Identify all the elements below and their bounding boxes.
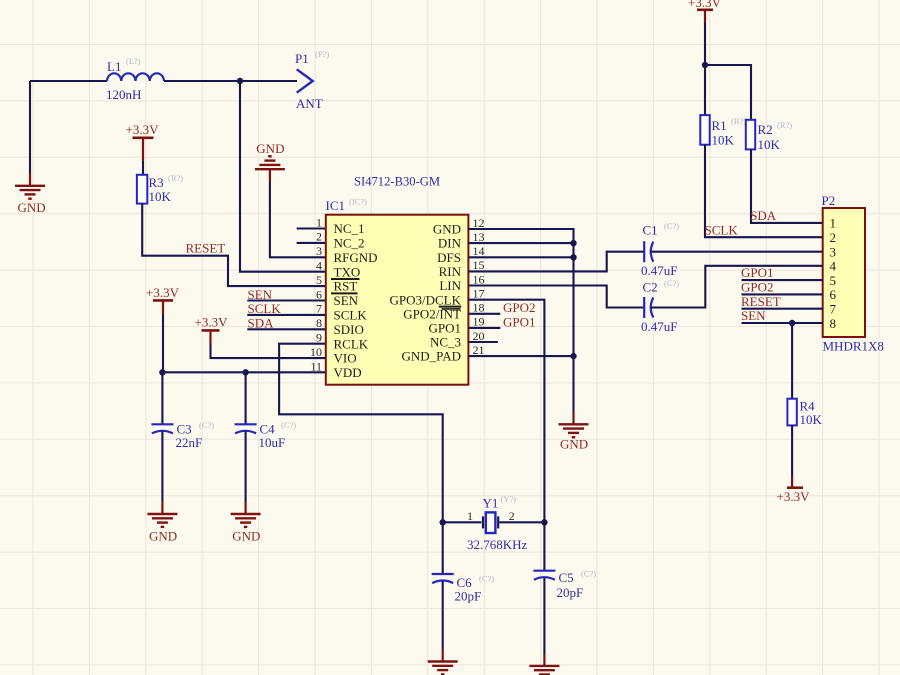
svg-text:R3: R3	[149, 175, 164, 190]
svg-text:1: 1	[316, 215, 322, 229]
ground stem RFGND	[269, 169, 271, 182]
svg-text:(C?): (C?)	[199, 420, 214, 430]
svg-text:20: 20	[473, 329, 485, 343]
junction VDD C4	[242, 369, 248, 375]
wire C6 drop	[442, 522, 444, 574]
svg-text:GPO1: GPO1	[741, 265, 774, 280]
ground stem under IC	[572, 412, 574, 424]
P2 pin 5 stub	[742, 279, 823, 281]
ground GND C5	[529, 666, 559, 675]
svg-text:SDIO: SDIO	[334, 322, 364, 337]
wire pin13 DIN	[468, 242, 573, 244]
svg-text:DFS: DFS	[437, 250, 461, 265]
connector P2 body	[823, 208, 865, 337]
svg-text:SEN: SEN	[334, 293, 359, 308]
svg-text:20pF: 20pF	[557, 585, 584, 600]
wire pin17 GPO3 to crystal	[468, 300, 544, 523]
IC1 pin 7 stub SCLK	[247, 314, 325, 316]
junction crystal right	[541, 519, 547, 525]
power stem R4 bottom	[791, 476, 793, 488]
capacitor C2	[644, 297, 653, 318]
junction DIN	[570, 240, 576, 246]
svg-text:DIN: DIN	[438, 236, 462, 251]
svg-text:GND: GND	[149, 529, 177, 544]
resistor R3	[137, 175, 147, 204]
svg-text:1: 1	[830, 216, 837, 231]
wire C3 to ground	[161, 432, 163, 503]
svg-text:ANT: ANT	[296, 96, 323, 111]
svg-text:12: 12	[473, 216, 485, 230]
svg-text:Y1: Y1	[483, 496, 499, 511]
svg-text:GND_PAD: GND_PAD	[402, 349, 461, 364]
wire to R2	[705, 65, 751, 120]
svg-text:(L?): (L?)	[126, 56, 141, 66]
svg-text:SCLK: SCLK	[334, 308, 368, 323]
svg-text:16: 16	[473, 272, 485, 286]
svg-text:GPO2: GPO2	[503, 300, 536, 315]
svg-text:SEN: SEN	[741, 308, 766, 323]
svg-text:7: 7	[316, 302, 322, 316]
svg-text:GND: GND	[18, 200, 46, 215]
power stem top right	[704, 10, 706, 23]
wire VDD vertical	[162, 314, 164, 372]
power +3.3V below R4	[787, 486, 803, 489]
svg-text:SDA: SDA	[750, 208, 777, 223]
wire C4 to ground	[245, 432, 247, 503]
svg-text:P1: P1	[295, 51, 309, 66]
svg-text:6: 6	[316, 287, 322, 301]
svg-text:RCLK: RCLK	[334, 336, 369, 351]
svg-text:(R?): (R?)	[777, 120, 792, 130]
ground GND C6	[428, 662, 458, 675]
svg-text:0.47uF: 0.47uF	[641, 263, 677, 278]
svg-text:22nF: 22nF	[176, 435, 203, 450]
svg-text:8: 8	[830, 316, 837, 331]
svg-text:17: 17	[473, 287, 485, 301]
ground GND C4	[231, 514, 261, 527]
power +3.3V VDD	[153, 299, 173, 302]
svg-text:GND: GND	[433, 222, 461, 237]
svg-text:2: 2	[509, 509, 515, 523]
svg-text:13: 13	[473, 230, 485, 244]
svg-text:GPO1: GPO1	[503, 314, 536, 329]
svg-text:0.47uF: 0.47uF	[641, 319, 677, 334]
IC1 pin 18 stub	[468, 313, 500, 315]
svg-text:7: 7	[830, 302, 837, 317]
svg-text:RST: RST	[334, 279, 358, 294]
svg-text:(C?): (C?)	[664, 278, 679, 288]
svg-text:4: 4	[830, 259, 837, 274]
power stem R3	[142, 138, 144, 161]
svg-text:+3.3V: +3.3V	[688, 0, 722, 10]
resistor R2	[746, 120, 755, 150]
ground GND left of L1	[15, 186, 45, 199]
svg-text:(P?): (P?)	[315, 49, 329, 59]
wire inductor to antenna port	[164, 80, 297, 82]
svg-text:+3.3V: +3.3V	[146, 285, 180, 300]
svg-text:2: 2	[316, 230, 322, 244]
ground stem C3	[161, 502, 163, 514]
junction VDD C3	[159, 369, 165, 375]
svg-text:(C?): (C?)	[664, 221, 679, 231]
wire +3.3V down	[704, 23, 706, 65]
wire RCLK to crystal	[279, 344, 443, 523]
capacitor C1	[644, 241, 653, 262]
svg-text:14: 14	[473, 244, 485, 258]
power stem VIO	[209, 330, 211, 344]
svg-text:(IC?): (IC?)	[349, 197, 367, 207]
svg-text:SDA: SDA	[248, 316, 275, 331]
capacitor C3	[151, 424, 173, 433]
junction antenna/TXO	[237, 78, 243, 84]
svg-text:MHDR1X8: MHDR1X8	[823, 339, 884, 354]
wire R2 to SDA row	[751, 149, 823, 223]
wire SEN to R4	[791, 323, 793, 399]
wire C5 to ground	[543, 578, 545, 654]
svg-text:RESET: RESET	[741, 294, 781, 309]
svg-text:SI4712-B30-GM: SI4712-B30-GM	[354, 175, 440, 189]
junction R1 R2	[702, 62, 708, 68]
svg-text:GND: GND	[560, 437, 588, 452]
svg-text:RESET: RESET	[186, 241, 226, 256]
IC1 pin 1 stub	[297, 227, 326, 229]
wire C5 drop	[543, 522, 545, 570]
power +3.3V top right	[697, 9, 713, 12]
wire R4 down	[791, 425, 793, 476]
op-amp U1 IC1 SI4712 body	[326, 215, 469, 385]
svg-text:P2: P2	[822, 193, 836, 208]
wire to R1	[704, 65, 706, 115]
svg-text:R1: R1	[712, 118, 727, 133]
P2 pin 8 stub	[742, 322, 823, 324]
port P1 ANT arrow	[297, 69, 313, 92]
svg-text:(C?): (C?)	[479, 574, 494, 584]
svg-text:C1: C1	[643, 223, 658, 238]
wire R1 to SCLK row	[705, 145, 823, 238]
crystal Y1	[483, 512, 498, 533]
power +3.3V above R3	[133, 137, 154, 140]
IC1 pin 19 stub	[468, 327, 500, 329]
IC1 pin 20 stub	[468, 341, 498, 343]
svg-text:GPO3/DCLK: GPO3/DCLK	[389, 292, 461, 307]
junction GND_PAD	[570, 353, 576, 359]
svg-text:GPO1: GPO1	[428, 321, 461, 336]
svg-text:NC_1: NC_1	[334, 221, 365, 236]
wire C2 to P2 pin4	[651, 266, 823, 308]
svg-text:10: 10	[310, 345, 322, 359]
svg-text:5: 5	[316, 273, 322, 287]
ground stem C6	[442, 649, 444, 662]
capacitor C4	[235, 424, 257, 433]
wire C1 to P2 pin3	[651, 251, 823, 253]
svg-text:NC_3: NC_3	[430, 335, 461, 350]
junction crystal left	[440, 519, 446, 525]
svg-text:(C?): (C?)	[281, 420, 296, 430]
svg-text:SCLK: SCLK	[705, 222, 739, 237]
svg-text:VDD: VDD	[334, 365, 362, 380]
svg-text:(C?): (C?)	[581, 569, 596, 579]
svg-text:L1: L1	[107, 59, 121, 74]
svg-text:VIO: VIO	[334, 351, 357, 366]
wire R3 to RESET run to RST pin	[142, 204, 326, 287]
svg-text:10K: 10K	[712, 133, 735, 148]
ground stem left	[29, 173, 31, 186]
wire C3 drop	[161, 372, 163, 424]
svg-text:RIN: RIN	[439, 264, 462, 279]
svg-text:18: 18	[473, 301, 485, 315]
power +3.3V VIO	[202, 329, 220, 332]
wire pin16 LIN to C2	[468, 286, 644, 308]
capacitor C6	[432, 574, 454, 583]
svg-text:SCLK: SCLK	[248, 301, 282, 316]
svg-text:GPO2: GPO2	[741, 280, 774, 295]
wire crystal right lead	[499, 521, 544, 523]
svg-text:GND: GND	[256, 141, 284, 156]
wire C6 to ground	[442, 581, 444, 649]
svg-text:(R?): (R?)	[731, 116, 746, 126]
wire crystal left lead	[443, 521, 482, 523]
svg-text:10K: 10K	[149, 189, 172, 204]
ground stem C4	[245, 502, 247, 514]
wire VIO	[211, 344, 326, 358]
svg-text:LIN: LIN	[439, 278, 461, 293]
svg-text:32.768KHz: 32.768KHz	[467, 537, 528, 552]
svg-text:IC1: IC1	[326, 198, 346, 213]
wire VDD rail	[162, 371, 325, 373]
wire pin21 GND_PAD	[468, 355, 573, 357]
wire TXO to antenna junction	[240, 81, 326, 272]
junction DFS	[570, 254, 576, 260]
svg-text:3: 3	[316, 244, 322, 258]
ground GND above RFGND	[255, 156, 285, 169]
svg-text:C5: C5	[559, 570, 574, 585]
svg-text:4: 4	[316, 259, 322, 273]
svg-text:120nH: 120nH	[106, 87, 141, 102]
svg-text:1: 1	[467, 509, 473, 523]
capacitor C5	[533, 571, 555, 580]
wire +3.3V to R3	[142, 161, 144, 175]
svg-text:+3.3V: +3.3V	[195, 315, 229, 330]
ground GND under IC	[559, 424, 589, 437]
inductor L1	[107, 73, 164, 81]
svg-text:SEN: SEN	[248, 287, 273, 302]
ground GND C3	[147, 514, 177, 527]
svg-text:3: 3	[830, 244, 837, 259]
svg-text:RFGND: RFGND	[334, 250, 378, 265]
P2 pin 6 stub	[742, 293, 823, 295]
svg-text:(Y?): (Y?)	[501, 494, 517, 504]
svg-text:19: 19	[473, 315, 485, 329]
IC1 pin 2 stub	[297, 242, 326, 244]
IC1 pin 8 stub SDA	[247, 328, 325, 330]
resistor R4	[787, 399, 796, 426]
ground stem C5	[543, 654, 545, 667]
svg-text:10uF: 10uF	[259, 435, 286, 450]
junction SEN R4	[789, 320, 795, 326]
svg-text:+3.3V: +3.3V	[777, 489, 811, 504]
power stem VDD	[162, 300, 164, 314]
wire pin14 DFS	[468, 256, 573, 258]
wire left vertical to ground	[29, 81, 31, 173]
svg-text:9: 9	[316, 331, 322, 345]
svg-text:20pF: 20pF	[455, 589, 482, 604]
wire antenna net left segment	[30, 80, 107, 82]
svg-text:TXO: TXO	[334, 264, 361, 279]
overline INT	[442, 308, 461, 310]
wire pin15 RIN to C1	[468, 252, 644, 272]
svg-text:R2: R2	[758, 122, 773, 137]
P2 pin 7 stub	[742, 308, 823, 310]
underline DCLK	[439, 306, 461, 308]
svg-text:8: 8	[316, 316, 322, 330]
wire pin12 GND run	[468, 229, 573, 412]
svg-text:2: 2	[830, 230, 837, 245]
svg-text:C2: C2	[643, 280, 658, 295]
svg-text:11: 11	[310, 359, 322, 373]
svg-text:NC_2: NC_2	[334, 236, 365, 251]
resistor R1	[700, 115, 709, 145]
svg-text:10K: 10K	[800, 412, 823, 427]
svg-text:GND: GND	[232, 529, 260, 544]
IC1 pin 6 stub SEN	[247, 299, 325, 301]
wire C4 drop	[245, 372, 247, 424]
svg-text:5: 5	[830, 273, 837, 288]
svg-text:6: 6	[830, 287, 837, 302]
svg-text:+3.3V: +3.3V	[126, 122, 160, 137]
svg-text:(R?): (R?)	[168, 173, 183, 183]
svg-text:21: 21	[473, 343, 485, 357]
wire RFGND to ground	[270, 182, 326, 257]
svg-text:15: 15	[473, 258, 485, 272]
svg-text:10K: 10K	[758, 137, 781, 152]
